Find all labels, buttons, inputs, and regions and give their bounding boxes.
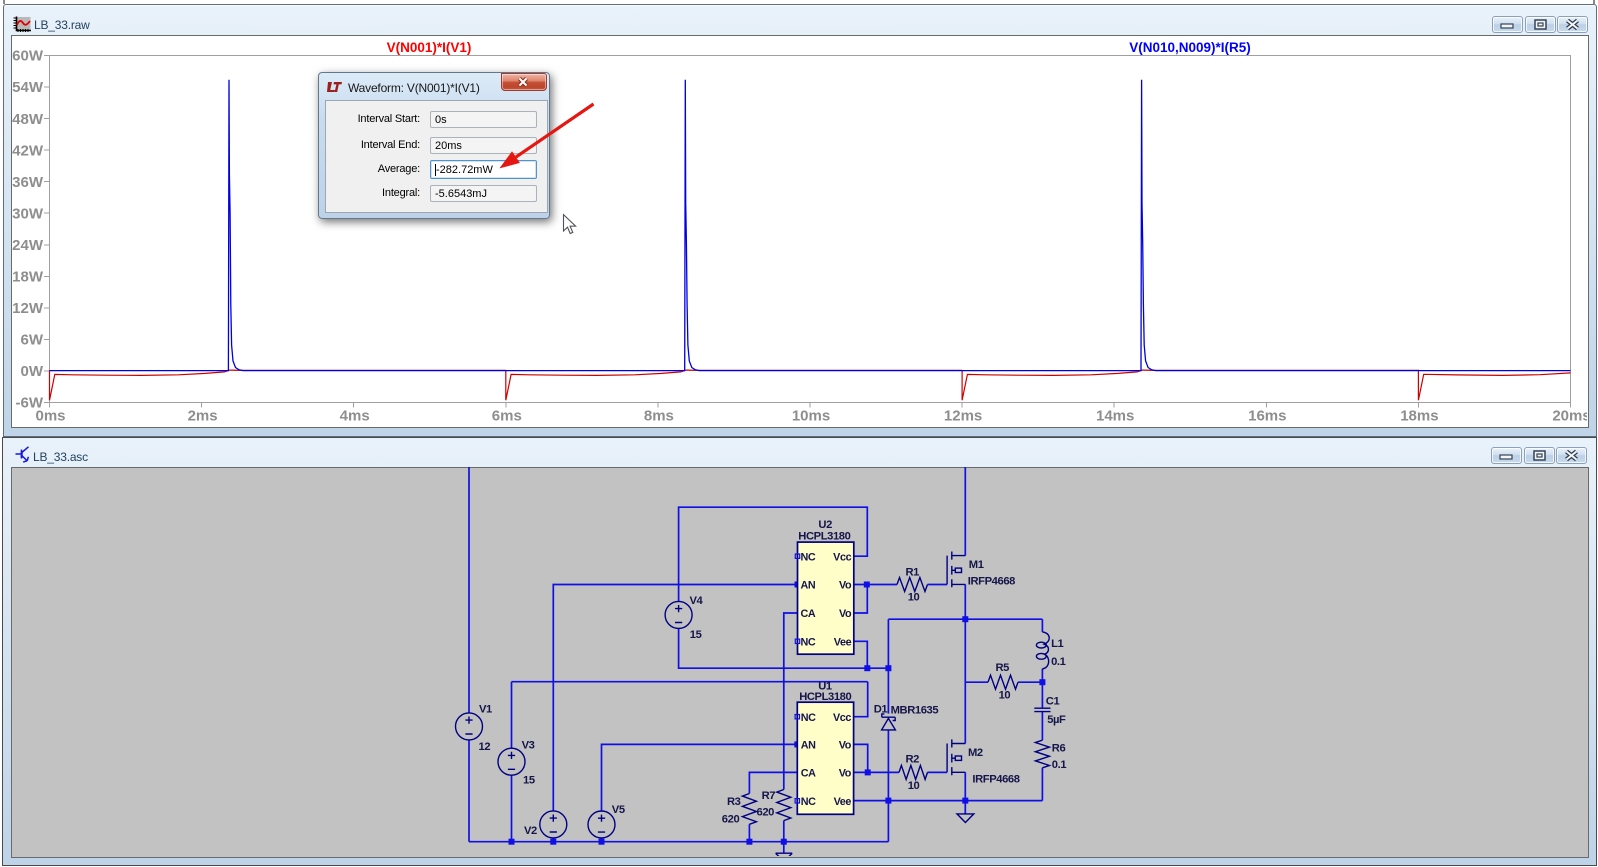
svg-text:Vo: Vo — [839, 740, 852, 752]
svg-text:Vo: Vo — [839, 608, 852, 620]
svg-text:M2: M2 — [968, 747, 983, 759]
node output node junction (L1/R5/C1) — [1039, 679, 1045, 685]
svg-text:R2: R2 — [906, 754, 920, 766]
wire U2 Vo2 link up — [854, 585, 868, 614]
wire R5 right to output node — [1018, 681, 1042, 683]
svg-text:620: 620 — [722, 814, 740, 826]
wire V2 plus up and across to U2 AN — [553, 585, 797, 811]
svg-text:8ms: 8ms — [644, 408, 674, 425]
node ground bus junction at V5 — [599, 839, 605, 845]
wire L1 top stub from switch rail — [1041, 619, 1043, 632]
svg-text:18W: 18W — [12, 269, 44, 286]
top strip remnant of window above — [3, 0, 5, 4]
wire M2 source down to power ground rail — [964, 772, 966, 800]
svg-text:R7: R7 — [762, 790, 776, 802]
wire switch node down to M2 drain — [964, 619, 966, 743]
svg-text:14ms: 14ms — [1096, 408, 1134, 425]
svg-text:V(N001)*I(V1): V(N001)*I(V1) — [387, 40, 472, 55]
svg-text:15: 15 — [690, 629, 702, 641]
svg-text:V2: V2 — [524, 825, 537, 837]
node switch node junction — [962, 616, 968, 622]
svg-text:0.1: 0.1 — [1052, 759, 1067, 771]
svg-text:36W: 36W — [12, 174, 44, 191]
wire switch node rail — [888, 618, 1042, 620]
resistor R7 — [777, 790, 791, 821]
node U1 Vo junction at R2 — [865, 769, 871, 775]
svg-text:D1: D1 — [874, 703, 888, 715]
svg-text:NC: NC — [801, 637, 816, 649]
wire U1 Vo1 link down — [854, 744, 868, 772]
svg-text:R6: R6 — [1052, 743, 1066, 755]
node U1 AN pin junction — [794, 741, 800, 747]
inductor L1 — [1042, 632, 1049, 669]
wire R7 bottom to ground bus — [783, 821, 785, 842]
svg-text:10ms: 10ms — [792, 408, 830, 425]
wire U2 Vo to R1 — [854, 584, 897, 586]
wire R5 left to switch node column — [965, 681, 988, 683]
svg-text:U2: U2 — [818, 519, 832, 531]
mouse cursor — [564, 215, 576, 234]
svg-text:10: 10 — [908, 780, 920, 792]
voltage source V2 — [540, 811, 567, 838]
svg-text:IRFP4668: IRFP4668 — [972, 774, 1019, 786]
ground at M2 source — [957, 814, 974, 823]
svg-text:0.1: 0.1 — [1051, 656, 1066, 668]
svg-text:24W: 24W — [12, 237, 44, 254]
wire V3 plus up to Vcc rail — [511, 682, 513, 749]
capacitor C1 — [1034, 708, 1050, 711]
svg-text:NC: NC — [801, 712, 816, 724]
wire D1 anode down to power ground rail — [887, 730, 889, 800]
svg-text:0ms: 0ms — [35, 408, 65, 425]
svg-text:CA: CA — [801, 768, 816, 780]
inductor L1 loop 2 — [1036, 653, 1046, 659]
svg-text:4ms: 4ms — [340, 408, 370, 425]
schematic SVG — [11, 467, 1587, 856]
svg-text:CA: CA — [801, 608, 816, 620]
inductor L1 loop 1 — [1036, 642, 1046, 648]
svg-text:60W: 60W — [12, 48, 44, 65]
inner panel — [325, 100, 548, 213]
diode D1 MBR1635 — [882, 714, 896, 730]
close button — [501, 73, 547, 91]
svg-text:L1: L1 — [1051, 638, 1063, 650]
svg-text:12ms: 12ms — [944, 408, 982, 425]
gray schematic pane — [11, 467, 1589, 858]
svg-text:AN: AN — [801, 740, 816, 752]
svg-text:6ms: 6ms — [492, 408, 522, 425]
pin U1 NC open-pin marker — [795, 715, 799, 719]
voltage source V5 — [588, 811, 615, 838]
node power ground junction at M2 source — [962, 798, 968, 804]
node floating return junction at U2 Vee — [864, 665, 870, 671]
ground at bottom bus (clipped) — [776, 853, 793, 857]
wire Vcc rail V3 to U1 — [512, 681, 868, 683]
svg-text:620: 620 — [757, 807, 775, 819]
pin U1 NC open-pin marker — [795, 799, 799, 803]
LT logo — [327, 81, 342, 93]
svg-text:R3: R3 — [727, 796, 741, 808]
resistor R3 — [742, 794, 756, 825]
node power ground junction at D1 — [885, 798, 891, 804]
svg-text:18ms: 18ms — [1400, 408, 1438, 425]
svg-text:HCPL3180: HCPL3180 — [798, 531, 850, 543]
wire V5 plus up and across to U1 AN — [602, 744, 798, 811]
wire V4 plus loop to U2 Vcc — [679, 507, 868, 602]
voltage source V3 — [498, 748, 525, 775]
wire D1 cathode up to switch rail — [887, 619, 889, 713]
node U2 AN pin junction — [795, 582, 801, 588]
wire D1 branch down to ground bus — [887, 801, 889, 842]
svg-text:V1: V1 — [479, 704, 492, 716]
voltage source V1 — [456, 713, 483, 740]
wire U2 Vee drop to floating return bus — [854, 641, 868, 668]
transistor M1 IRFP4668 — [947, 552, 965, 588]
wire R3 top to U1 CA — [749, 772, 797, 793]
wire R3 bottom to ground bus — [748, 824, 750, 841]
wire ground stub below bus — [783, 842, 785, 853]
wire C1 to R6 — [1041, 711, 1043, 740]
svg-text:IRFP4668: IRFP4668 — [968, 576, 1015, 588]
svg-text:10: 10 — [999, 690, 1011, 702]
svg-text:V(N010,N009)*I(R5): V(N010,N009)*I(R5) — [1129, 40, 1251, 55]
wire U2 CA down to R7 — [784, 613, 798, 790]
svg-text:54W: 54W — [12, 79, 44, 96]
svg-text:R5: R5 — [996, 662, 1010, 674]
transistor M2 IRFP4668 — [947, 739, 965, 775]
wire V1 plus up to supply rail (clipped at pane top) — [468, 466, 470, 713]
svg-text:HCPL3180: HCPL3180 — [799, 691, 851, 703]
svg-text:16ms: 16ms — [1248, 408, 1286, 425]
opto gate driver U1 HCPL3180 body — [797, 702, 853, 814]
wire power ground rail U1 Vee to R6 — [854, 800, 1043, 802]
svg-text:Vo: Vo — [839, 580, 852, 592]
wire M1 source to switch node — [964, 584, 966, 619]
wire R1 to M1 gate — [928, 584, 948, 586]
window icon .raw — [13, 16, 31, 34]
svg-text:6W: 6W — [21, 332, 44, 349]
node ground bus junction at V2 — [550, 839, 556, 845]
resistor R5 — [988, 675, 1018, 689]
svg-text:42W: 42W — [12, 142, 44, 159]
svg-text:30W: 30W — [12, 205, 44, 222]
plot SVG — [12, 32, 1587, 425]
svg-text:12W: 12W — [12, 300, 44, 317]
resistor R6 — [1035, 740, 1049, 768]
svg-text:Vee: Vee — [834, 637, 852, 649]
svg-text:NC: NC — [801, 796, 816, 808]
resistor R1 — [897, 578, 927, 592]
svg-text:0W: 0W — [21, 363, 44, 380]
wire V2 minus stub — [552, 838, 554, 842]
wire V5 minus stub — [601, 838, 603, 842]
svg-text:MBR1635: MBR1635 — [891, 704, 939, 716]
white plot pane — [11, 35, 1589, 428]
wire U1 Vcc drop — [854, 682, 868, 717]
min/max/close buttons — [1492, 16, 1523, 33]
wire output node to C1 — [1041, 682, 1043, 708]
node U2 Vo junction — [864, 582, 870, 588]
svg-text:5µF: 5µF — [1047, 714, 1066, 726]
svg-text:C1: C1 — [1046, 696, 1060, 708]
svg-text:Vee: Vee — [834, 796, 852, 808]
svg-text:48W: 48W — [12, 111, 44, 128]
svg-text:Vcc: Vcc — [833, 712, 851, 724]
node ground bus junction at V3 — [509, 839, 515, 845]
svg-text:M1: M1 — [969, 559, 984, 571]
svg-text:10: 10 — [908, 592, 920, 604]
svg-text:AN: AN — [801, 580, 816, 592]
node ground bus junction at R3 — [746, 839, 752, 845]
svg-text:12: 12 — [479, 741, 491, 753]
wire V1 minus down to ground bus — [468, 740, 470, 842]
svg-text:V4: V4 — [690, 595, 704, 607]
svg-text:15: 15 — [523, 775, 535, 787]
svg-text:NC: NC — [801, 551, 816, 563]
wire L1 bottom stub to output node — [1041, 669, 1043, 682]
svg-text:2ms: 2ms — [188, 408, 218, 425]
svg-text:Vcc: Vcc — [833, 551, 851, 563]
svg-text:R1: R1 — [906, 567, 920, 579]
wire V3 minus down to ground bus — [511, 775, 513, 841]
wire U1 Vo2 to R2 — [854, 771, 900, 773]
opto gate driver U2 HCPL3180 body — [798, 542, 854, 654]
wire V4 minus to floating return bus — [679, 628, 889, 668]
wire R6 bottom to power ground rail — [1041, 768, 1043, 801]
svg-text:Vo: Vo — [839, 768, 852, 780]
pin U2 NC open-pin marker — [795, 639, 799, 643]
wire R2 to M2 gate — [928, 771, 948, 773]
resistor R2 — [899, 765, 928, 779]
svg-text:V3: V3 — [522, 740, 535, 752]
voltage source V4 — [665, 601, 692, 628]
wire M2 ground stub — [964, 801, 966, 814]
pin U2 NC open-pin marker — [795, 554, 799, 558]
node floating return junction at D1 — [885, 665, 891, 671]
svg-text:20ms: 20ms — [1552, 408, 1587, 425]
wire M1 drain up (clipped at pane top) — [964, 466, 966, 556]
red arrow annotation — [499, 104, 593, 168]
svg-text:V5: V5 — [612, 804, 625, 816]
node ground bus junction at R7 — [781, 839, 787, 845]
wire ground bus — [469, 841, 888, 843]
window icon .asc — [15, 446, 31, 464]
